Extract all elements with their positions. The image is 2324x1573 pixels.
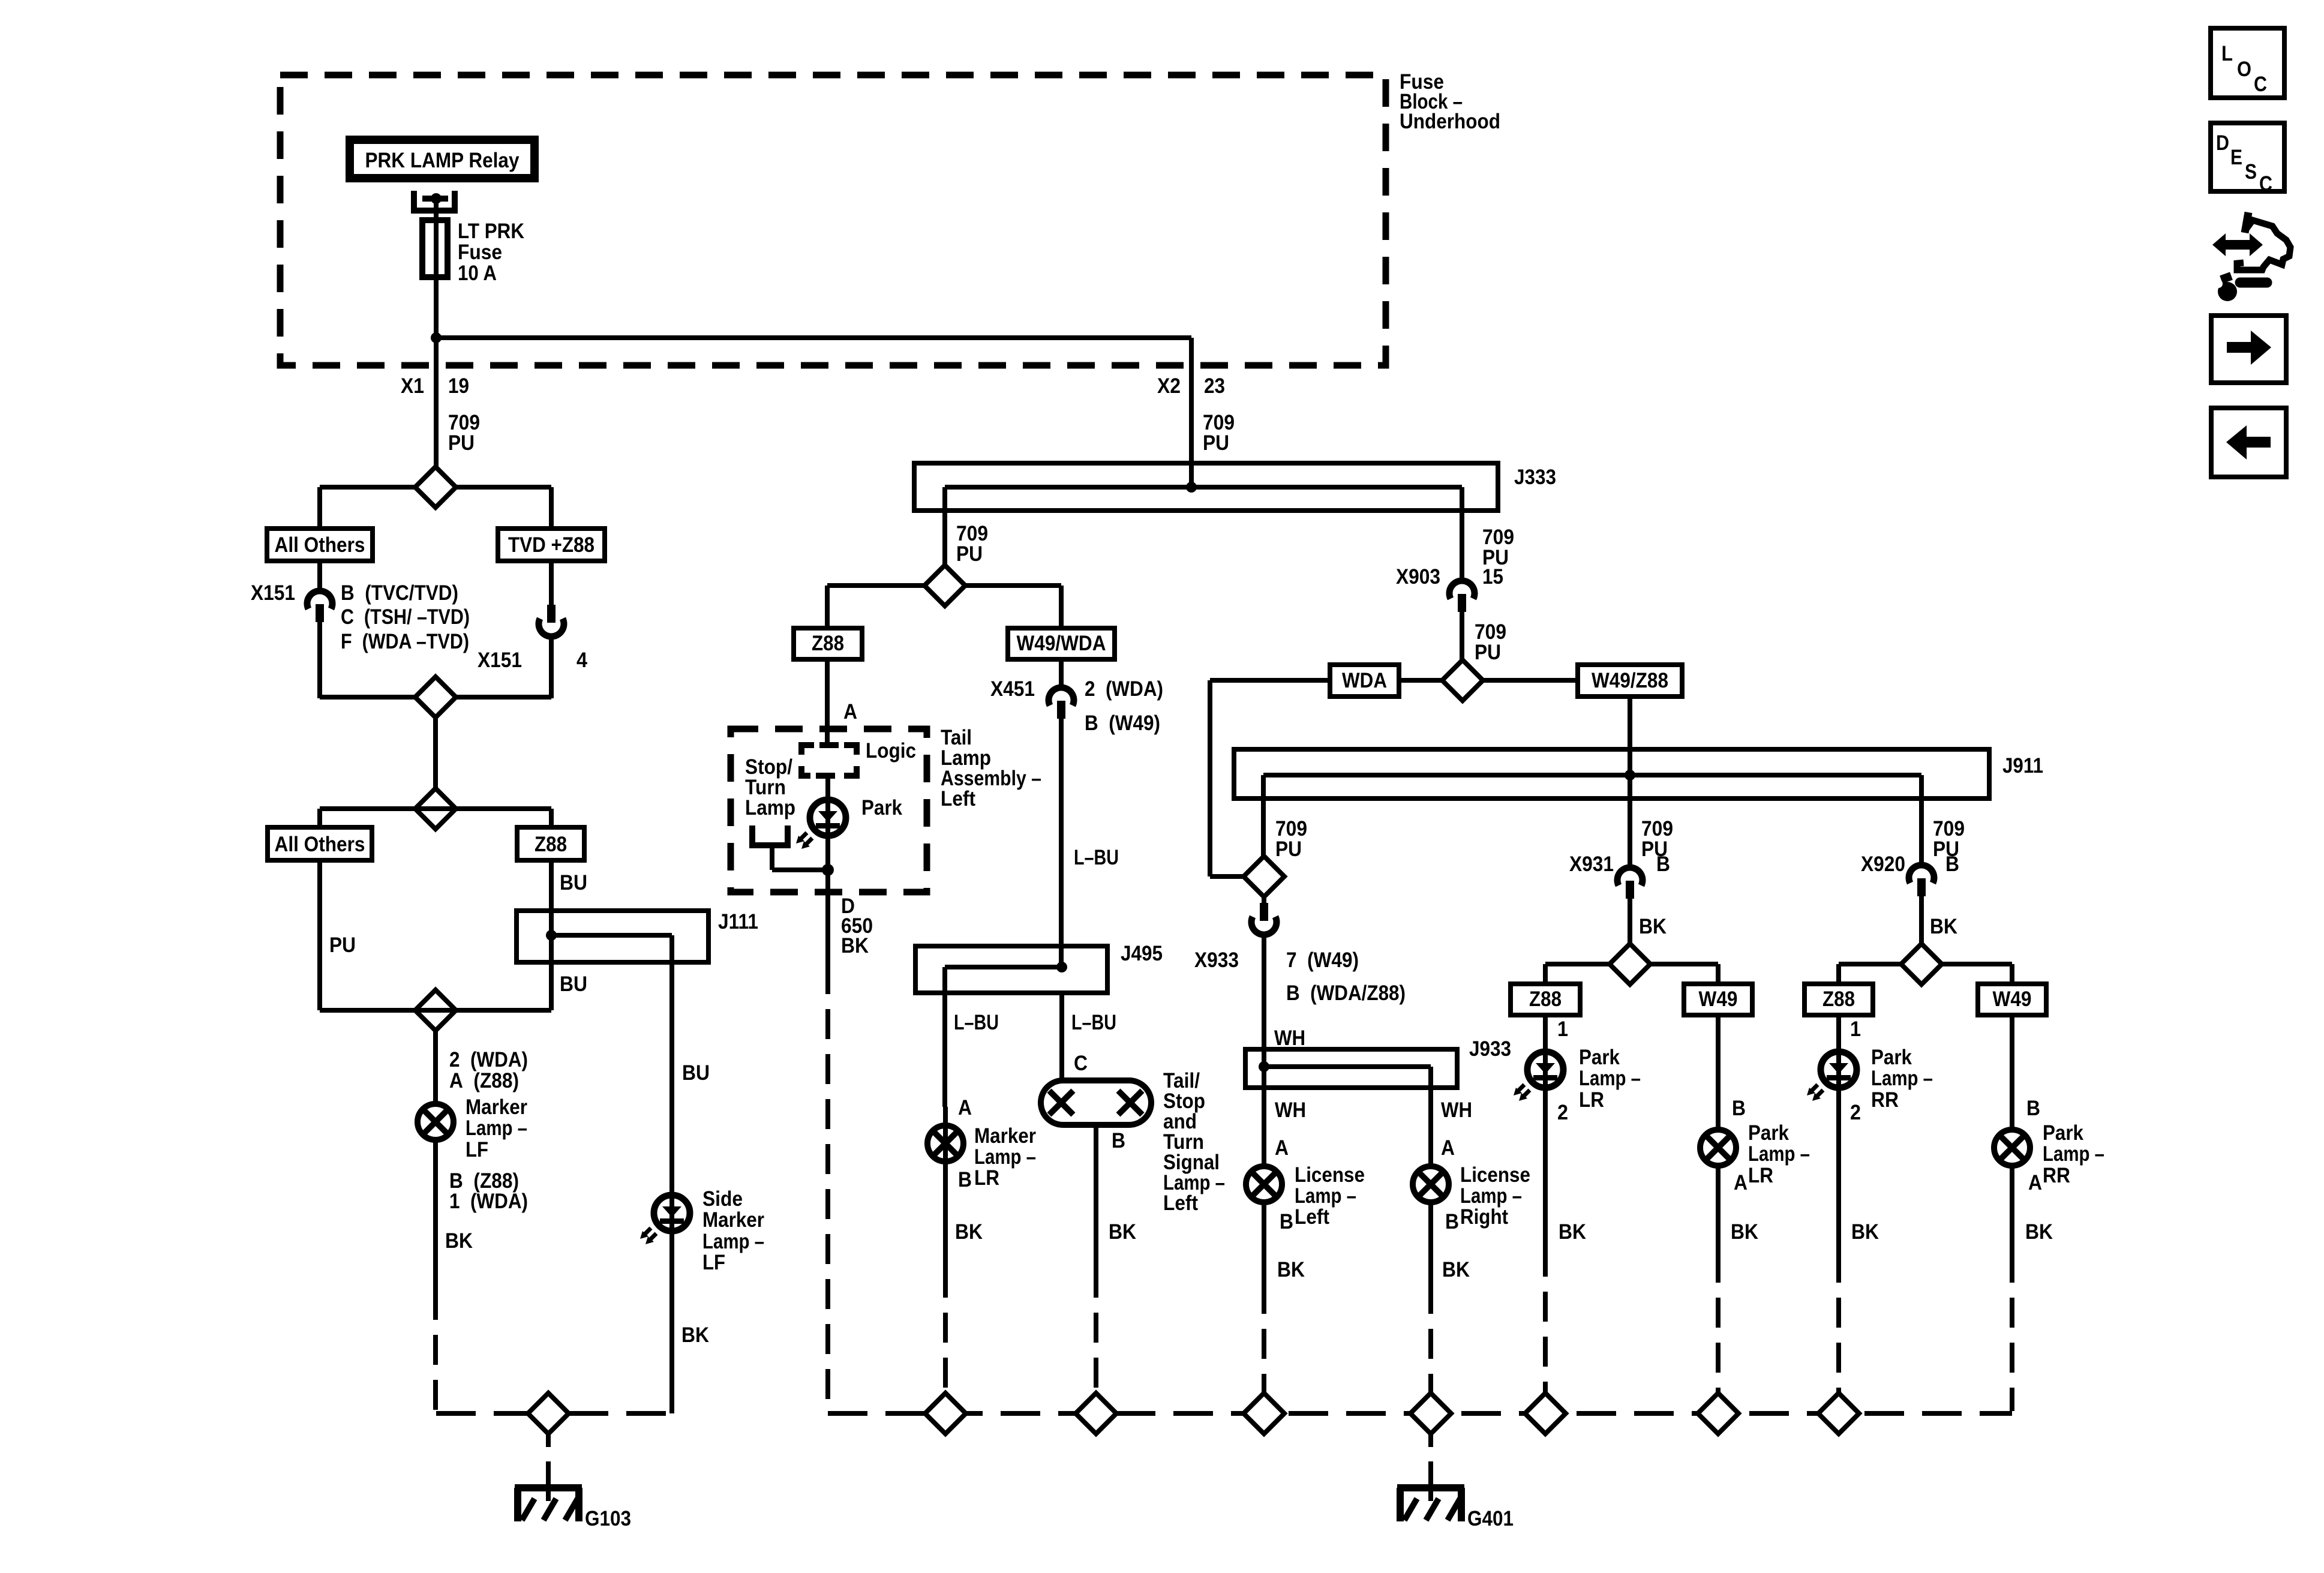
svg-text:TVD +Z88: TVD +Z88 [508,533,594,557]
svg-text:X903: X903 [1396,565,1440,589]
svg-text:BU: BU [682,1061,710,1085]
svg-text:Marker: Marker [702,1208,764,1232]
svg-text:L–BU: L–BU [1074,846,1119,869]
svg-text:G103: G103 [585,1507,631,1530]
svg-text:A: A [843,700,857,724]
svg-text:Park: Park [2043,1121,2083,1145]
svg-text:A: A [2028,1171,2042,1194]
svg-text:BK: BK [1442,1258,1470,1281]
svg-text:BK: BK [681,1323,709,1347]
svg-text:A: A [1275,1136,1289,1160]
svg-text:B: B [1945,852,1959,876]
svg-text:BK: BK [1109,1220,1136,1244]
svg-text:Lamp –: Lamp – [702,1230,764,1253]
svg-text:7 (W49): 7 (W49) [1286,948,1359,972]
svg-text:A (Z88): A (Z88) [449,1069,519,1092]
svg-text:W49: W49 [1699,987,1738,1011]
svg-text:Park: Park [1871,1046,1912,1069]
svg-text:L–BU: L–BU [954,1011,999,1034]
svg-text:BK: BK [1851,1220,1879,1244]
svg-text:WH: WH [1441,1098,1472,1122]
svg-text:G401: G401 [1467,1507,1514,1530]
svg-text:BK: BK [1731,1220,1758,1244]
svg-text:WDA: WDA [1342,669,1387,692]
svg-text:E: E [2230,146,2242,169]
svg-text:Z88: Z88 [812,632,844,655]
svg-text:J933: J933 [1469,1037,1511,1061]
svg-text:PU: PU [956,542,983,566]
svg-text:B (TVC/TVD): B (TVC/TVD) [341,581,458,605]
svg-text:LF: LF [466,1138,488,1161]
svg-text:S: S [2245,160,2257,184]
svg-text:X151: X151 [478,649,522,672]
svg-text:X151: X151 [251,581,295,605]
svg-text:1 (WDA): 1 (WDA) [449,1190,528,1213]
svg-text:10 A: 10 A [458,262,497,285]
svg-text:L: L [2221,42,2233,65]
svg-text:PU: PU [448,431,475,455]
svg-text:F (WDA –TVD): F (WDA –TVD) [341,630,469,653]
svg-text:B: B [1732,1097,1746,1120]
svg-text:Lamp –: Lamp – [2043,1142,2104,1166]
svg-text:Right: Right [1460,1205,1508,1229]
svg-text:19: 19 [448,374,469,398]
svg-text:Underhood: Underhood [1400,110,1500,133]
svg-text:BK: BK [445,1229,473,1253]
svg-text:LR: LR [974,1166,999,1190]
svg-text:BK: BK [841,934,869,957]
svg-text:PU: PU [1203,431,1229,455]
svg-text:J911: J911 [2002,754,2043,778]
svg-text:Marker: Marker [974,1124,1036,1148]
svg-text:PRK LAMP Relay: PRK LAMP Relay [365,149,520,172]
svg-text:1: 1 [1850,1017,1861,1041]
svg-text:Lamp –: Lamp – [1871,1067,1933,1090]
svg-text:BK: BK [1559,1220,1586,1244]
svg-text:Lamp –: Lamp – [1579,1067,1641,1090]
svg-text:A: A [958,1096,972,1119]
svg-text:B (WDA/Z88): B (WDA/Z88) [1286,981,1406,1005]
svg-text:LR: LR [1579,1088,1604,1112]
svg-text:2: 2 [1850,1101,1861,1124]
svg-text:J495: J495 [1121,942,1163,965]
svg-text:O: O [2237,58,2251,81]
svg-text:L–BU: L–BU [1071,1011,1116,1034]
svg-text:W49/Z88: W49/Z88 [1592,669,1668,692]
svg-text:4: 4 [577,649,587,672]
svg-text:RR: RR [1871,1088,1899,1112]
svg-text:X2: X2 [1157,374,1181,398]
svg-text:PU: PU [329,933,356,957]
svg-text:X920: X920 [1861,852,1905,876]
svg-text:2 (WDA): 2 (WDA) [449,1048,528,1071]
svg-text:License: License [1460,1163,1530,1187]
svg-text:Left: Left [1163,1191,1198,1215]
svg-text:Park: Park [1748,1121,1789,1145]
svg-text:Lamp –: Lamp – [466,1116,527,1140]
svg-text:RR: RR [2043,1164,2070,1187]
svg-text:C: C [2259,172,2272,196]
svg-text:W49/WDA: W49/WDA [1017,632,1106,655]
svg-text:Z88: Z88 [1529,987,1562,1011]
svg-text:LT PRK: LT PRK [458,220,524,243]
svg-text:B: B [1280,1210,1293,1233]
svg-text:PU: PU [1475,641,1501,664]
svg-text:X933: X933 [1194,948,1239,972]
svg-text:WH: WH [1275,1098,1306,1122]
svg-text:Left: Left [1295,1205,1329,1229]
svg-text:1: 1 [1557,1017,1568,1041]
svg-text:LF: LF [702,1251,725,1274]
svg-text:BK: BK [1277,1258,1305,1281]
svg-text:BU: BU [560,972,587,996]
svg-text:2: 2 [1557,1101,1568,1124]
svg-text:BK: BK [1639,915,1667,938]
svg-text:B: B [1445,1210,1459,1233]
svg-text:PU: PU [1275,837,1302,861]
svg-text:BK: BK [955,1220,983,1244]
svg-text:D: D [2216,131,2229,155]
svg-text:Logic: Logic [866,739,916,763]
svg-text:Side: Side [702,1187,743,1211]
svg-text:All Others: All Others [275,533,365,557]
svg-text:Z88: Z88 [1822,987,1855,1011]
svg-text:BK: BK [1930,915,1957,938]
svg-text:C: C [2254,73,2267,96]
svg-text:X1: X1 [401,374,424,398]
svg-text:C: C [1074,1052,1088,1075]
svg-text:J111: J111 [718,910,758,933]
svg-text:B: B [2026,1097,2040,1120]
svg-text:C (TSH/ –TVD): C (TSH/ –TVD) [341,605,470,629]
svg-text:Lamp –: Lamp – [1295,1184,1356,1208]
svg-text:Lamp: Lamp [745,796,795,819]
svg-text:WH: WH [1274,1026,1305,1050]
svg-text:A: A [1441,1136,1455,1160]
svg-text:BK: BK [2025,1220,2053,1244]
svg-text:BU: BU [560,871,587,894]
svg-text:X451: X451 [990,677,1035,701]
svg-text:B: B [1656,852,1670,876]
svg-text:LR: LR [1748,1164,1773,1187]
svg-text:B (W49): B (W49) [1085,712,1160,735]
svg-text:Z88: Z88 [535,833,567,856]
svg-text:Lamp –: Lamp – [974,1145,1036,1169]
svg-text:Park: Park [861,796,902,819]
svg-text:B: B [958,1168,972,1191]
svg-text:15: 15 [1482,565,1503,589]
svg-text:Lamp –: Lamp – [1748,1142,1810,1166]
svg-text:X931: X931 [1569,852,1614,876]
svg-text:All Others: All Others [275,833,365,856]
svg-text:Left: Left [941,787,975,810]
svg-text:J333: J333 [1514,466,1556,489]
svg-text:W49: W49 [1993,987,2032,1011]
svg-text:Park: Park [1579,1046,1620,1069]
svg-text:B: B [1112,1129,1125,1152]
svg-text:Lamp –: Lamp – [1460,1184,1522,1208]
svg-text:2 (WDA): 2 (WDA) [1085,677,1163,701]
svg-text:23: 23 [1204,374,1225,398]
svg-text:A: A [1734,1171,1747,1194]
svg-text:Marker: Marker [466,1095,527,1119]
svg-text:License: License [1295,1163,1365,1187]
svg-text:Fuse: Fuse [458,241,502,264]
